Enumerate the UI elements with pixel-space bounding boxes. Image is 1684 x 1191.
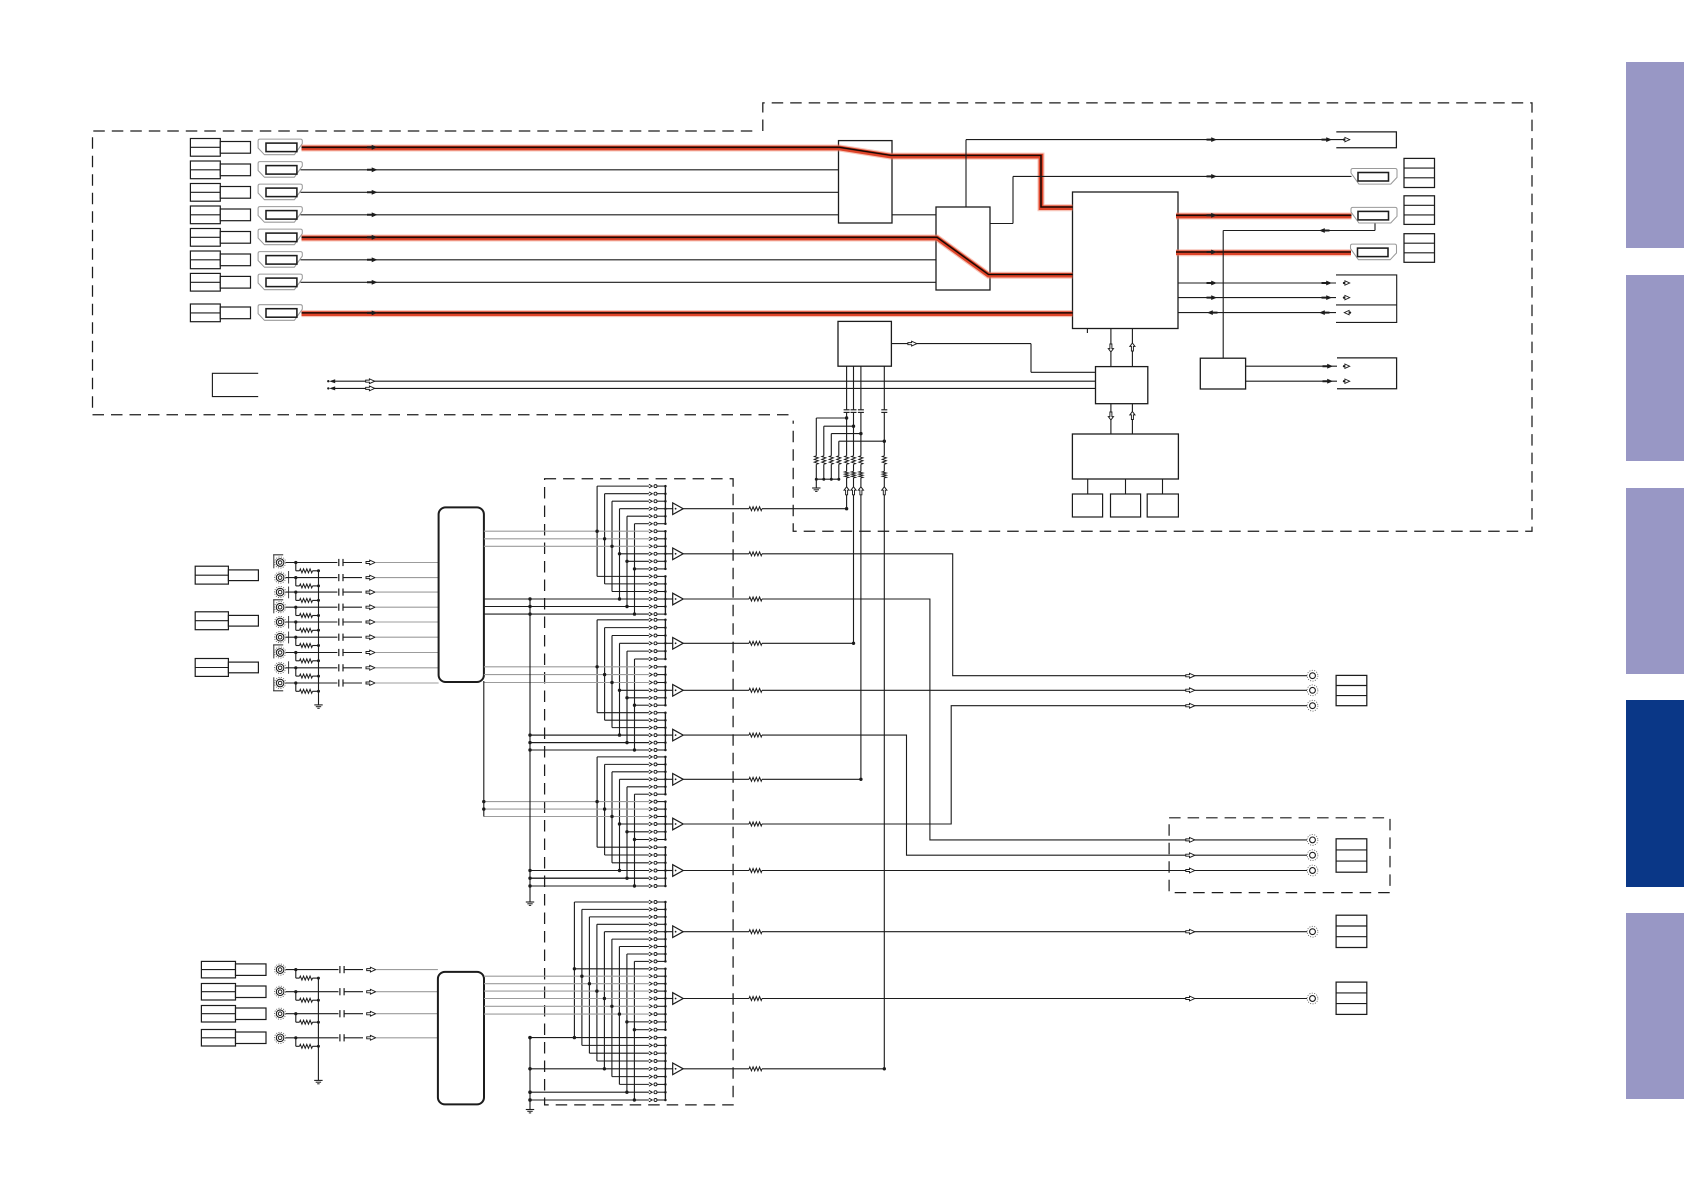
wire amp3 to monitor component Y [683, 598, 749, 600]
dashed box: HDMI input section (top-left) [93, 131, 790, 415]
sidebar tab 3 (lavender) [1626, 488, 1684, 674]
video amp U13 [673, 638, 684, 650]
HDMI input connector J8 [258, 305, 302, 321]
video amp U18 [673, 865, 684, 877]
ground bus video inputs [317, 978, 319, 1080]
label box HDMI OUT1 [1404, 158, 1435, 187]
resistor R33 (series 2) [859, 471, 863, 478]
arrow on red path U1 out2 [1207, 250, 1218, 255]
switch matrix block 1: fan wiring [484, 484, 666, 616]
red output path U1 to HDMI MONITOR OUT2 [1176, 249, 1351, 256]
RCA jack video input 3 [275, 1008, 286, 1019]
connector label boxes HDMI IN3 [190, 184, 220, 202]
HPD buffer box (right small) [1200, 358, 1245, 389]
flow arrows on HDMI input wires [367, 145, 378, 315]
RCA jack component input 6 [275, 632, 286, 643]
sidebar tab 4 (navy, active) [1626, 700, 1684, 887]
termination network component inputs [286, 561, 338, 693]
HDMI input connector J4 [258, 207, 302, 223]
sidebar tab 5 (lavender) [1626, 913, 1684, 1099]
termination network video inputs [286, 968, 339, 1048]
collector bus and amplifiers block 2 [664, 619, 673, 752]
resistor R21 (to ground) [814, 456, 818, 465]
HDMI input connector J2 [258, 162, 302, 178]
flow arrows on output lines [1186, 673, 1195, 1001]
wire HDMI IN4 to switch IC1 [301, 214, 839, 216]
wire HDMI IN3 to switch IC1 [301, 191, 839, 193]
dashed box: video amp section (middle) [545, 479, 734, 1105]
crystal box 1 [1072, 494, 1102, 517]
wire amp5 to component out Pb [683, 689, 749, 691]
pin stub below U1 [1086, 329, 1088, 334]
wire amp6 to monitor component Pb [683, 734, 749, 736]
sidebar tab 1 (lavender) [1626, 62, 1684, 248]
wire: IC1 area to DVI out (top) [966, 139, 1350, 141]
wire: U1 aux out 2 [1178, 297, 1336, 299]
collector bus and amplifiers block 1 [664, 485, 673, 615]
RCA jacks component output group 1 [1307, 670, 1318, 681]
connector label boxes HDMI IN8 [190, 304, 220, 322]
wire: U1 aux out 1 [1178, 282, 1336, 284]
wire: U1 aux in 3 [1178, 312, 1336, 314]
video amp U20 [673, 993, 684, 1005]
HDMI output connector OUT2 [1351, 207, 1397, 223]
label box HDMI OUT2 [1404, 196, 1435, 225]
HDMI input connector J3 [258, 184, 302, 200]
video buffer bus bar 1 [439, 507, 484, 682]
label box monitor output group [1336, 839, 1367, 872]
amp output lines with series resistors [683, 507, 1307, 1071]
feed vertical below bus bar 1 (block 3 grays) [483, 681, 485, 817]
arrow on red path U1 out1 [1207, 213, 1218, 218]
video amp U14 [673, 685, 684, 697]
video amp U11 [673, 548, 684, 560]
coupling caps and arrows video inputs [340, 966, 438, 1041]
output box aux (open-left, two cells) [1336, 275, 1397, 323]
wire: box C to EEPROM [891, 343, 1031, 345]
video amp U21 [673, 1063, 684, 1075]
switch matrix block 3: fan wiring [484, 755, 666, 888]
bias bus vertical 2 (block 4) with ground [529, 1038, 531, 1110]
HDMI output connector OUT3 [1351, 244, 1397, 260]
video buffer bus bar 2 [438, 972, 484, 1105]
RCA jack video out 2 [1307, 993, 1318, 1004]
connector label boxes HDMI IN7 [190, 273, 220, 291]
resistor R25 (series) [845, 456, 849, 465]
wire amp12 to pull-up line 4 [683, 1068, 749, 1070]
HDMI receiver U1 [1073, 192, 1179, 329]
RCA jack component input 5 [275, 616, 286, 627]
switch matrix block 4: fan wiring [484, 900, 665, 1102]
crystal box 3 [1147, 494, 1178, 517]
red output path U1 to HDMI MONITOR OUT1 [1176, 213, 1352, 220]
resistor R24 (to ground) [837, 456, 841, 465]
label box video out 2 [1336, 982, 1367, 1014]
video amp U10 [673, 503, 684, 515]
connector label boxes HDMI IN4 [190, 206, 220, 224]
resistor R28 (series) [882, 456, 886, 465]
HDMI output connector OUT1 [1351, 169, 1397, 185]
shield bracket component inputs [273, 554, 283, 556]
wire: IC2 to HDMI OUT1 connector [990, 223, 1013, 225]
RCA jack video input 2 [275, 986, 286, 997]
collector bus and amplifiers block 3 [664, 756, 673, 888]
video amp U19 [673, 926, 684, 938]
resistor R22 (to ground) [822, 456, 826, 465]
pull-up network line 4 (box C pin to amp bus) [883, 366, 885, 409]
stub wires MCU to crystals [1087, 479, 1089, 494]
video amp U16 [673, 774, 684, 786]
pull-up network line 1 (box C pin to amp bus) [846, 366, 848, 409]
arrows on DDC/control wire pair [327, 379, 375, 391]
wire amp11 to video out 2 [683, 998, 749, 1000]
output box DVI (open-left) [1336, 132, 1396, 148]
collector bus and amplifiers block 4 [664, 901, 673, 1102]
wire amp1 to pull-up line 1 [683, 508, 749, 510]
video amp U17 [673, 818, 684, 830]
connector label boxes HDMI IN1 [190, 139, 220, 157]
wire amp7 to pull-up line 3 [683, 778, 749, 780]
pull-up network line 3 (box C pin to amp bus) [860, 366, 862, 409]
connector shell (open box, DDC header) [212, 373, 258, 396]
pull-up network line 2 (box C pin to amp bus) [853, 366, 855, 409]
label boxes VIDEO IN 4 [201, 1030, 235, 1047]
label box HDMI OUT3 [1404, 234, 1435, 263]
RCA jack component input 2 [275, 572, 286, 583]
wire: HPD return from HDMI OUT connector [1223, 230, 1375, 232]
wire HDMI IN6 to switch IC2 [301, 259, 937, 261]
wire amp10 to video out 1 [683, 931, 749, 933]
label boxes VIDEO IN 2 [201, 984, 235, 1001]
label boxes VIDEO IN 3 [201, 1006, 235, 1023]
output box system connector (open-left) [1337, 358, 1397, 389]
RCA jack component input 8 [275, 662, 286, 673]
HDMI switch IC1 (block A) [839, 141, 893, 223]
ground bus component inputs [318, 571, 320, 705]
wire HDMI IN7 to switch IC2 [301, 281, 937, 283]
dashed box: monitor output group (mid-right) [1169, 818, 1390, 893]
RCA jack component input 7 [275, 647, 286, 658]
connector label boxes HDMI IN6 [190, 251, 220, 269]
RCA jack component input 1 [275, 557, 286, 568]
power arrow on line 1 [844, 487, 849, 495]
MCU box (lower) [1072, 434, 1178, 479]
RCA jack video out 1 [1307, 926, 1318, 937]
power arrow on line 4 [882, 487, 887, 495]
RCA jacks monitor output group (in dashed box) [1307, 835, 1318, 846]
HDMI input connector J5 [258, 229, 302, 245]
label boxes COMPONENT IN A [195, 566, 228, 584]
bus wires U1 to EEPROM (I2C) [1110, 329, 1112, 367]
RCA jack video input 1 [275, 964, 286, 975]
resistor R23 (to ground) [829, 456, 833, 465]
red signal path HDMI IN5 through switch IC2 to receiver U1 [302, 238, 1073, 275]
HDMI input connector J1 [258, 139, 302, 155]
bus wires EEPROM to MCU [1110, 404, 1112, 434]
HDMI input connector J7 [258, 274, 302, 290]
label box component output group 1 [1336, 675, 1367, 705]
wire pair: DDC/control lines to sub board [335, 380, 1096, 382]
RCA jack video input 4 [275, 1032, 286, 1043]
resistor R26 (series) [852, 456, 856, 465]
connector label boxes HDMI IN5 [190, 229, 220, 247]
label box video out 1 [1336, 915, 1367, 947]
control box C (CEC/DDC buffer) [838, 321, 891, 366]
ground (resistor network) [812, 487, 820, 489]
wire amp9 to monitor component Pr [683, 870, 749, 872]
wire: HPD buffer outputs to system connector [1246, 365, 1337, 367]
bias bus vertical 1 (blocks 1-3) with ground [529, 599, 531, 902]
coupling caps and arrows component inputs [339, 559, 439, 687]
wire amp4 to pull-up line 2 [683, 642, 749, 644]
RCA jack component input 3 [275, 587, 286, 598]
power arrow on line 3 [858, 487, 863, 495]
wire amp8 to component out Pr [683, 823, 749, 825]
label boxes VIDEO IN 1 [201, 961, 235, 978]
wire amp2 to component out Y [683, 553, 749, 555]
connector label boxes HDMI IN2 [190, 161, 220, 179]
resistor R31 (series 2) [845, 471, 849, 478]
RCA jack component input 9 [275, 677, 286, 688]
resistor R27 (series) [859, 456, 863, 465]
red signal path HDMI IN8 to receiver U1 [302, 310, 1073, 317]
dashed box: main switch section (top-right) [763, 103, 1532, 531]
label boxes COMPONENT IN C [195, 659, 228, 677]
power arrow on line 2 [851, 487, 856, 495]
switch matrix block 2: fan wiring [484, 618, 666, 752]
red signal path HDMI IN1 through switch IC1 to receiver U1 [302, 148, 1073, 208]
wire HDMI IN2 to switch IC1 [301, 169, 839, 171]
EDID EEPROM box (medium) [1096, 367, 1148, 404]
sidebar tab 2 (lavender) [1626, 275, 1684, 461]
video amp U15 [673, 729, 684, 741]
crystal box 2 [1111, 494, 1141, 517]
HDMI switch IC2 (block B) [936, 207, 990, 290]
HDMI input connector J6 [258, 252, 302, 268]
label boxes COMPONENT IN B [195, 612, 228, 630]
RCA jack component input 4 [275, 602, 286, 613]
resistor R32 (series 2) [852, 471, 856, 478]
resistor R34 (series 2) [882, 471, 886, 478]
wire switch IC1 to IC2 [892, 214, 936, 216]
junction bar of ground resistors [816, 478, 839, 480]
video amp U12 [673, 593, 684, 605]
